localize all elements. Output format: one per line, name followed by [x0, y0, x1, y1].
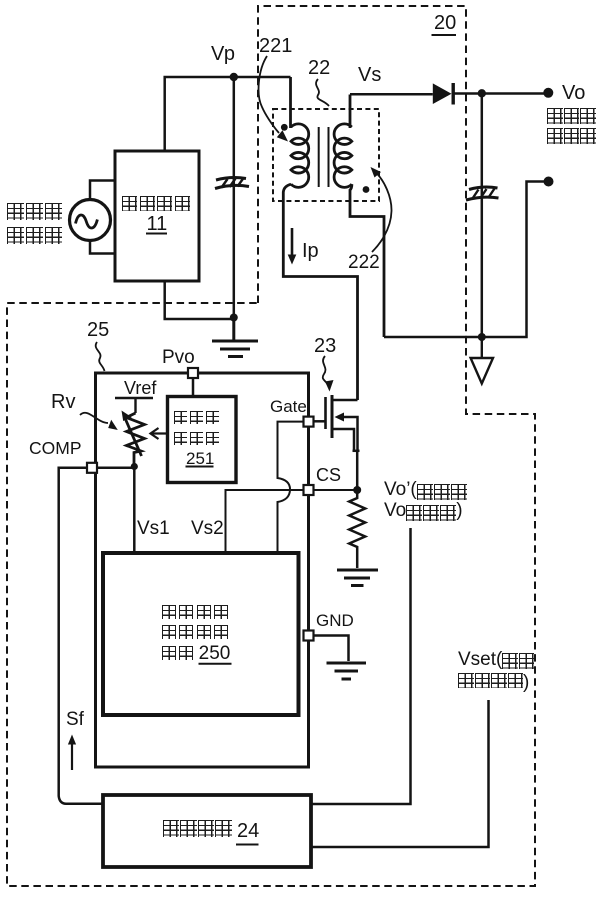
arrow 221 leader	[259, 56, 288, 142]
resistor Rv (variable)	[122, 411, 145, 467]
wire COMP to feedback	[59, 468, 103, 804]
ground (earth) primary side	[212, 319, 258, 357]
wire Vp down	[233, 77, 236, 319]
pin Pvo	[188, 368, 198, 397]
arrow Sf	[68, 735, 76, 771]
node Rv bottom	[131, 463, 138, 470]
label 250 underline	[199, 663, 232, 665]
transformer 22 dashed box	[273, 109, 379, 201]
label 20 underline	[432, 34, 457, 36]
rectifier unit 11	[115, 151, 199, 281]
label 251 underline	[186, 466, 214, 468]
wire AC to rectifier	[90, 181, 115, 254]
wire Vset to feedback	[311, 700, 489, 847]
arrow Ip	[288, 228, 297, 265]
resistor Rcs	[349, 490, 365, 568]
controller IC box 25	[96, 373, 309, 767]
feedback unit 24	[103, 795, 311, 867]
Vref rail	[115, 398, 153, 413]
wire Vo' to feedback	[311, 528, 411, 804]
wire Vs to diode	[350, 93, 433, 96]
pin Gate	[304, 417, 314, 427]
capacitor C1 (hatched) on Vp line	[215, 178, 249, 189]
resistor control unit 251	[168, 397, 237, 483]
node return rail	[478, 333, 486, 341]
label 11 underline	[146, 233, 167, 235]
switch control signal generator 250	[103, 553, 299, 715]
node Vp	[230, 73, 238, 81]
leader 25	[96, 342, 105, 371]
transformer core	[319, 127, 329, 187]
wire diode to Vo	[453, 92, 548, 95]
arrow 251 to Rv (open)	[151, 428, 168, 439]
node below rectifier	[230, 314, 238, 322]
terminal output return	[544, 177, 554, 187]
diode D1	[433, 83, 453, 105]
primary dot	[281, 124, 288, 131]
ground (earth) Rcs	[337, 570, 378, 586]
text labels	[434, 13, 456, 33]
terminal Vo	[543, 88, 553, 98]
arrow 222 leader	[371, 167, 392, 252]
pin CS	[304, 485, 314, 495]
pin COMP	[87, 463, 134, 473]
primary winding 221	[283, 77, 357, 400]
wire rectifier top to Vp rail	[165, 77, 291, 151]
leader 22	[316, 79, 329, 106]
node after diode	[478, 89, 486, 97]
return rail wire	[384, 182, 549, 338]
leader 23	[323, 356, 334, 392]
arrow Rv leader	[80, 413, 118, 430]
wire output cap branch	[481, 93, 484, 337]
capacitor C2 (hatched) output	[466, 187, 499, 200]
pin GND	[304, 631, 349, 662]
wire CS pin to node	[314, 489, 358, 491]
transistor Q 23	[314, 395, 360, 490]
secondary dot	[363, 186, 370, 193]
AC source V1	[70, 200, 111, 241]
label 24 underline	[236, 844, 259, 846]
wire rectifier bottom	[165, 281, 234, 319]
node CS	[353, 486, 361, 494]
wire Gate internal with hop	[278, 422, 309, 553]
wire Vs1	[133, 467, 136, 554]
secondary winding 222	[334, 95, 384, 338]
ground triangle output	[471, 337, 493, 384]
ground (earth) GND pin	[327, 663, 367, 679]
wire Vs2 from CS	[226, 490, 304, 553]
